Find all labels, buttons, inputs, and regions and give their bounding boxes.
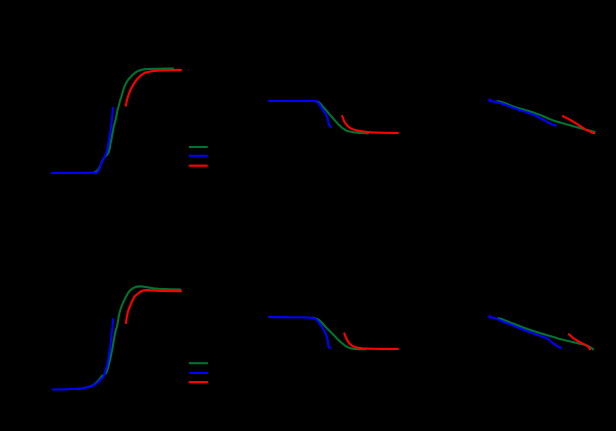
legend-top blue — [189, 155, 208, 157]
legend-bot red — [189, 381, 208, 383]
curve TL-red — [126, 70, 181, 106]
legend-top green — [189, 146, 208, 148]
curve BL-green — [78, 286, 180, 389]
curve BL-red — [126, 290, 181, 323]
curve BR-red — [569, 334, 590, 349]
curve TL-green — [95, 68, 174, 172]
legend-top red — [189, 165, 208, 167]
curve TR-blue — [489, 101, 556, 126]
curve TR-green — [498, 101, 595, 132]
curve TM-green — [313, 101, 368, 133]
curve BM-green — [313, 318, 366, 350]
curve BL-blue — [53, 319, 114, 390]
curve TR-red — [563, 116, 594, 133]
curve TM-blue — [269, 101, 331, 127]
curve BR-blue — [489, 317, 561, 348]
legend-bot green — [189, 362, 208, 364]
nub TR-blue-start — [489, 99, 491, 101]
nub BR-blue-start — [489, 316, 491, 318]
curve TM-red — [342, 116, 398, 133]
curve TL-blue — [52, 108, 113, 173]
curve BM-red — [344, 334, 398, 349]
curve BR-green — [499, 318, 594, 349]
curve BM-blue — [269, 317, 331, 348]
legend-bot blue — [189, 372, 208, 374]
